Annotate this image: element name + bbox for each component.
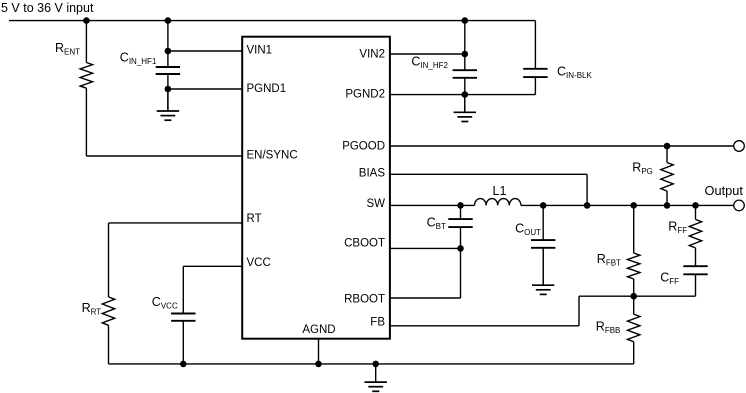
wire: input rail bbox=[9, 20, 535, 22]
resistor R_FBT bbox=[628, 253, 640, 279]
wire: VIN2 wire bbox=[390, 53, 465, 55]
svg-text:CVCC: CVCC bbox=[152, 295, 178, 311]
svg-text:RBOOT: RBOOT bbox=[344, 293, 385, 305]
junction: rail / C_IN_HF2 bbox=[462, 17, 469, 24]
svg-text:RFF: RFF bbox=[668, 220, 687, 236]
junction: rail / R_ENT bbox=[83, 17, 90, 24]
ground (input HF1 ground) bbox=[157, 89, 179, 120]
svg-text:RENT: RENT bbox=[55, 41, 80, 57]
wire: R_FBT bottom to FB node bbox=[633, 279, 635, 296]
svg-text:FB: FB bbox=[370, 316, 385, 328]
wire: VOUT to R_FF top bbox=[695, 205, 697, 219]
svg-text:PGND1: PGND1 bbox=[247, 83, 287, 95]
capacitor C_FF bbox=[683, 266, 707, 274]
wire: FB node to R_FBB top bbox=[633, 296, 635, 314]
wire: C_VCC bottom to rail bbox=[182, 321, 184, 364]
wire: R_FBB bottom lead bbox=[633, 342, 635, 364]
svg-text:EN/SYNC: EN/SYNC bbox=[247, 150, 298, 162]
svg-text:PGND2: PGND2 bbox=[345, 88, 385, 100]
svg-text:VIN1: VIN1 bbox=[247, 45, 273, 57]
wire: PGND2 wire bbox=[390, 94, 535, 96]
wire: R_PG top lead bbox=[666, 146, 668, 163]
svg-text:PGOOD: PGOOD bbox=[342, 141, 385, 153]
svg-text:SW: SW bbox=[366, 198, 385, 210]
wire: R_RT bottom to rail bbox=[108, 325, 110, 364]
capacitor C_BT bbox=[448, 219, 472, 227]
capacitor C_IN_HF1 bbox=[156, 67, 180, 74]
svg-text:Output: Output bbox=[705, 183, 744, 198]
wire: SW wire to inductor bbox=[390, 204, 475, 206]
junction: C_IN_HF1 / PGND1 bbox=[165, 86, 172, 93]
svg-text:RRT: RRT bbox=[82, 301, 102, 317]
svg-text:COUT: COUT bbox=[515, 222, 541, 238]
svg-text:CIN_HF1: CIN_HF1 bbox=[120, 51, 157, 67]
wire: FB node line bbox=[579, 295, 696, 297]
wire: inductor to Output terminal bbox=[521, 204, 733, 206]
wire: RT wire bbox=[109, 222, 242, 224]
junction: C_IN_HF1 / VIN1 bbox=[165, 48, 172, 55]
ground (output ground) bbox=[532, 248, 554, 295]
wire: PGND1 wire bbox=[168, 88, 242, 90]
wire: PGOOD wire bbox=[390, 145, 733, 147]
wire: FB jog vertical bbox=[578, 296, 580, 326]
wire: R_PG bottom lead bbox=[666, 191, 668, 205]
junction: VOUT / R_FF bbox=[692, 202, 699, 209]
svg-text:5 V to 36 V input: 5 V to 36 V input bbox=[1, 1, 94, 15]
junction: rail / C_IN_HF1 bbox=[165, 17, 172, 24]
wire: EN/SYNC wire bbox=[86, 155, 241, 157]
terminal: Output bbox=[734, 200, 745, 211]
wire: R_FF bottom to C_FF top plate bbox=[695, 248, 697, 266]
wire: VCC wire bbox=[183, 265, 241, 267]
wire: C_FF bottom to FB node bbox=[695, 274, 697, 296]
resistor R_FBB bbox=[628, 314, 640, 342]
svg-text:VCC: VCC bbox=[247, 257, 271, 269]
wire: analog ground rail bbox=[109, 363, 634, 365]
wire: VIN1 wire bbox=[168, 50, 242, 52]
wire: FB wire bbox=[390, 325, 579, 327]
wire: rail to C_IN_HF2 top plate bbox=[464, 21, 466, 71]
wire: BIAS drop to VOUT bbox=[586, 174, 588, 205]
capacitor C_VCC bbox=[171, 314, 195, 321]
capacitor C_IN-BLK bbox=[523, 69, 547, 77]
wire: VOUT to C_OUT top plate bbox=[542, 205, 544, 240]
wire: rail to C_IN_HF1 top plate bbox=[167, 21, 169, 67]
wire: C_BT bottom to RBOOT corner bbox=[460, 227, 462, 298]
svg-text:CBOOT: CBOOT bbox=[344, 238, 385, 250]
svg-text:CIN-BLK: CIN-BLK bbox=[557, 64, 592, 80]
wire: RT corner to R_RT top bbox=[108, 223, 110, 297]
wire: VOUT to R_FBT top bbox=[633, 205, 635, 253]
capacitor C_IN_HF2 bbox=[453, 70, 477, 78]
junction: C_IN_HF2 / PGND2 bbox=[462, 91, 469, 98]
svg-text:AGND: AGND bbox=[302, 324, 335, 336]
resistor R_RT bbox=[102, 297, 114, 325]
svg-text:RT: RT bbox=[247, 213, 262, 225]
junction: VOUT / R_FBT bbox=[630, 202, 637, 209]
junction: VOUT / C_OUT bbox=[540, 202, 547, 209]
wire: SW to C_BT top plate bbox=[460, 205, 462, 219]
wire: C_IN_HF2 bottom to ground bbox=[464, 78, 466, 113]
svg-text:RPG: RPG bbox=[632, 160, 653, 176]
junction: FB / R_FBT / R_FBB bbox=[630, 293, 637, 300]
wire: AGND stub bbox=[318, 338, 320, 364]
wire: rail corner to C_IN-BLK top plate bbox=[534, 21, 536, 69]
wire: CBOOT wire bbox=[390, 247, 461, 249]
wire: BIAS wire bbox=[390, 173, 587, 175]
junction: rail / AGND bbox=[315, 361, 322, 368]
resistor R_FF bbox=[689, 219, 701, 248]
wire: C_IN-BLK bottom to PGND2 wire bbox=[534, 77, 536, 95]
junction: rail / ground bbox=[372, 361, 379, 368]
resistor R_ENT bbox=[80, 63, 92, 89]
svg-text:CIN_HF2: CIN_HF2 bbox=[411, 55, 448, 71]
wire: rail to R_ENT top bbox=[85, 21, 87, 63]
inductor L1 bbox=[475, 199, 521, 206]
capacitor C_OUT bbox=[531, 240, 555, 248]
junction: SW / C_BT bbox=[457, 202, 464, 209]
svg-text:VIN2: VIN2 bbox=[359, 48, 385, 60]
svg-text:BIAS: BIAS bbox=[359, 168, 386, 180]
ground (analog ground) bbox=[365, 364, 387, 391]
junction: VOUT / R_PG bbox=[664, 202, 671, 209]
svg-text:CFF: CFF bbox=[660, 270, 679, 286]
wire: C_IN_HF1 bottom to ground bbox=[167, 74, 169, 111]
junction: VOUT / BIAS bbox=[584, 202, 591, 209]
resistor R_PG bbox=[661, 163, 673, 192]
svg-text:RFBT: RFBT bbox=[597, 252, 621, 268]
svg-text:L1: L1 bbox=[493, 184, 507, 198]
wire: VCC corner to C_VCC top plate bbox=[182, 266, 184, 313]
svg-text:CBT: CBT bbox=[427, 216, 446, 232]
junction: C_IN_HF2 / VIN2 bbox=[462, 51, 469, 58]
junction: C_BT / CBOOT bbox=[457, 245, 464, 252]
svg-text:RFBB: RFBB bbox=[596, 320, 621, 336]
wire: R_ENT bottom to EN/SYNC corner bbox=[85, 88, 87, 156]
wire: C_OUT bottom to ground bbox=[542, 248, 544, 285]
ground (input HF2 ground) bbox=[454, 95, 476, 122]
terminal: PGOOD output bbox=[734, 141, 745, 152]
IC U1 (buck converter) bbox=[242, 37, 390, 339]
wire: RBOOT wire bbox=[390, 297, 461, 299]
junction: PGOOD / R_PG bbox=[664, 143, 671, 150]
junction: rail / C_VCC bbox=[180, 361, 187, 368]
